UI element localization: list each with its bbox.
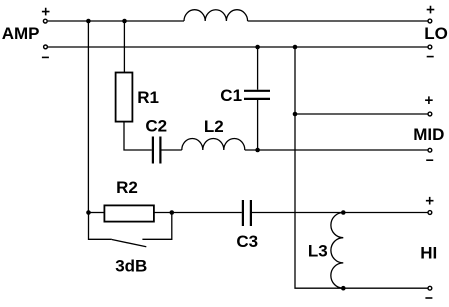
terminal HI plus	[428, 211, 432, 215]
switch 3dB left lead	[89, 213, 112, 240]
switch 3dB right lead	[142, 213, 171, 240]
svg-text:3dB: 3dB	[115, 257, 147, 276]
node junction dot top rail at R2 feed	[86, 19, 91, 24]
polarity minus sign LO	[427, 56, 434, 58]
wire top + rail right segment	[248, 20, 428, 22]
polarity plus sign HI	[426, 197, 434, 205]
resistor R1	[116, 73, 133, 122]
resistor R2	[104, 205, 153, 221]
wire common negative vertical	[295, 47, 428, 288]
svg-text:C3: C3	[236, 232, 258, 251]
node junction dot top rail at R1 feed	[122, 19, 127, 24]
terminal MID plus	[428, 112, 432, 116]
svg-text:R2: R2	[116, 178, 138, 197]
node junction dot minus rail at C1	[255, 45, 260, 50]
wire L2 to MID minus terminal	[245, 149, 428, 151]
terminal LO plus	[428, 19, 432, 23]
node junction dot R2 left	[86, 210, 91, 215]
polarity minus sign MID	[426, 159, 433, 161]
polarity plus sign LO	[427, 6, 435, 14]
wire R1 bottom to C2	[124, 122, 152, 150]
terminal AMP plus	[43, 19, 47, 23]
wire R2 row left	[89, 212, 105, 214]
terminal HI minus	[428, 286, 432, 290]
terminal LO minus	[428, 45, 432, 49]
inductor L1	[184, 10, 248, 21]
inductor L3	[331, 213, 343, 289]
svg-text:MID: MID	[413, 125, 444, 144]
wire minus rail	[48, 46, 428, 48]
node junction dot minus rail at common vertical	[293, 45, 298, 50]
svg-text:R1: R1	[137, 88, 159, 107]
wire vertical feed to R2 row	[87, 21, 89, 213]
wire vertical feed to R1	[123, 21, 125, 73]
polarity minus sign AMP	[42, 56, 49, 58]
node junction dot MID plus takeoff	[293, 112, 298, 117]
svg-text:C2: C2	[145, 116, 167, 135]
svg-text:L3: L3	[308, 242, 328, 261]
wire C3 to HI plus terminal	[252, 212, 428, 214]
node junction dot R2 right	[170, 210, 175, 215]
terminal AMP minus	[44, 45, 48, 49]
wire R2 to C3	[154, 212, 242, 214]
node junction dot C1 bottom	[255, 148, 260, 153]
polarity plus sign AMP	[42, 8, 50, 16]
inductor L2	[182, 139, 245, 150]
svg-text:LO: LO	[424, 24, 448, 43]
svg-text:AMP: AMP	[2, 24, 40, 43]
wire C2 to L2	[162, 149, 182, 151]
capacitor C1	[244, 47, 270, 150]
polarity plus sign MID	[425, 96, 433, 104]
capacitor C2	[153, 137, 161, 164]
node junction dot L3 top	[341, 210, 346, 215]
wire top + rail left segment	[48, 20, 184, 22]
terminal MID minus	[428, 148, 432, 152]
svg-text:HI: HI	[420, 244, 437, 263]
wire to MID plus terminal	[295, 113, 428, 115]
polarity minus sign HI	[425, 297, 432, 299]
node junction dot L3 bottom	[341, 286, 346, 291]
switch 3dB blade	[112, 240, 147, 247]
capacitor C3	[243, 200, 251, 226]
svg-text:L2: L2	[204, 117, 224, 136]
svg-text:C1: C1	[220, 86, 242, 105]
